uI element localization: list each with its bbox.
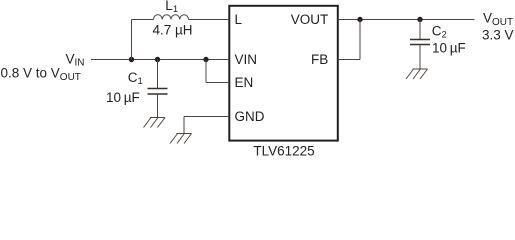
capacitor C2 plates xyxy=(410,39,430,41)
svg-text:3.3 V: 3.3 V xyxy=(482,28,514,43)
IC U1 TLV61225 box xyxy=(229,6,337,141)
svg-text:10 µF: 10 µF xyxy=(432,41,466,56)
capacitor C1 top lead xyxy=(157,60,159,89)
svg-text:C2: C2 xyxy=(432,24,447,41)
wire EN tie vertical xyxy=(205,60,207,83)
node junction dot L leg on VIN net xyxy=(129,57,134,62)
ground symbol at GND pin xyxy=(170,134,192,144)
wire VIN net horizontal xyxy=(91,59,229,61)
svg-text:VOUT: VOUT xyxy=(291,12,329,27)
node junction dot C2 on VOUT net xyxy=(417,17,422,22)
ground symbol at C2 xyxy=(406,69,428,79)
node junction dot C1 on VIN net xyxy=(155,57,160,62)
svg-text:FB: FB xyxy=(311,52,328,67)
svg-text:EN: EN xyxy=(235,75,254,90)
capacitor C1 bottom lead xyxy=(157,94,159,118)
node junction dot EN tie on VIN net xyxy=(203,57,208,62)
svg-text:GND: GND xyxy=(235,109,265,124)
capacitor C2 bottom lead xyxy=(419,45,421,70)
wire inductor left lead horizontal xyxy=(132,19,154,21)
wire inductor right lead to pin L xyxy=(189,19,230,21)
svg-text:TLV61225: TLV61225 xyxy=(253,144,314,158)
inductor L1 humps xyxy=(154,15,189,20)
wire inductor left leg vertical xyxy=(131,20,133,60)
wire EN horizontal to pin xyxy=(206,82,229,84)
ground symbol at C1 xyxy=(144,118,166,128)
svg-text:0.8 V to VOUT: 0.8 V to VOUT xyxy=(1,66,81,83)
wire GND pin horizontal xyxy=(184,116,229,118)
svg-text:VIN: VIN xyxy=(66,51,85,68)
svg-text:10 µF: 10 µF xyxy=(106,90,140,105)
wire GND pin vertical drop xyxy=(183,117,185,134)
wire FB horizontal to pin xyxy=(338,59,360,61)
capacitor C2 top lead xyxy=(419,20,421,40)
svg-text:L: L xyxy=(235,12,243,27)
svg-text:4.7 µH: 4.7 µH xyxy=(153,23,193,38)
capacitor C1 plates xyxy=(148,88,168,90)
svg-text:L1: L1 xyxy=(165,0,178,15)
wire VOUT net horizontal xyxy=(338,19,475,21)
svg-text:C1: C1 xyxy=(128,70,143,87)
svg-text:VOUT: VOUT xyxy=(483,11,513,28)
svg-text:VIN: VIN xyxy=(235,52,258,67)
wire FB tie vertical xyxy=(359,20,361,60)
node junction dot FB tie on VOUT net xyxy=(357,17,362,22)
